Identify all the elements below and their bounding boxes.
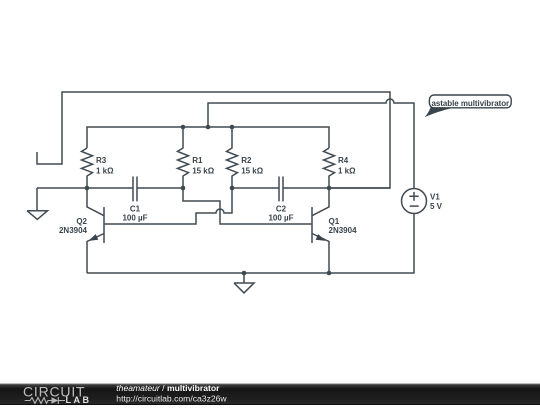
capacitor C2 <box>279 177 283 202</box>
junction dot R1 bottom <box>181 186 186 191</box>
junction dot Q1 emitter node <box>327 271 332 276</box>
svg-text:Q1: Q1 <box>329 217 340 226</box>
transistor Q2 base bar <box>103 207 105 243</box>
resistor R4 <box>324 148 335 188</box>
svg-text:C1: C1 <box>130 205 141 214</box>
transistor Q1 emitter <box>312 234 329 274</box>
wire left rail <box>37 187 133 189</box>
svg-text:Q2: Q2 <box>76 217 87 226</box>
emitter arrow Q2 <box>88 234 98 241</box>
svg-text:theamateur / multivibrator: theamateur / multivibrator <box>116 383 220 393</box>
svg-text:R1: R1 <box>192 156 203 165</box>
wire supply to V1 with hop <box>208 99 414 189</box>
voltage source V1 <box>402 189 427 214</box>
svg-text:100 µF: 100 µF <box>268 213 293 222</box>
transistor Q2 emitter <box>87 234 104 274</box>
emitter arrow Q1 <box>316 234 326 241</box>
junction dot R2 bottom <box>230 186 235 191</box>
svg-text:R4: R4 <box>338 156 349 165</box>
svg-text:100 µF: 100 µF <box>122 213 147 222</box>
wire C1 to R1 <box>137 187 183 189</box>
svg-text:LAB: LAB <box>66 395 92 405</box>
ground left <box>27 188 48 219</box>
annotation callout box <box>429 95 511 108</box>
svg-text:15 kΩ: 15 kΩ <box>192 166 215 175</box>
transistor Q2 collector <box>87 188 104 216</box>
ground bottom <box>234 273 254 293</box>
wire bottom rail <box>87 214 414 274</box>
resistor R2 <box>227 127 238 188</box>
wire top bus <box>87 127 329 148</box>
svg-text:2N3904: 2N3904 <box>59 226 88 235</box>
wire C2 to node B <box>283 187 390 189</box>
transistor Q1 collector <box>312 188 329 216</box>
svg-text:V1: V1 <box>430 193 440 202</box>
junction dot ground node <box>242 271 247 276</box>
wire R2 to C2 <box>232 187 279 189</box>
wire cross-couple A (R1 to Q1 base) <box>183 188 312 224</box>
junction dot Q1 collector node <box>327 186 332 191</box>
transistor Q1 base bar <box>311 207 313 243</box>
svg-text:R2: R2 <box>241 156 252 165</box>
svg-text:1 kΩ: 1 kΩ <box>338 166 356 175</box>
svg-text:C2: C2 <box>276 205 287 214</box>
wire cross-couple B (R2 to Q2 base) with hop <box>104 188 232 224</box>
junction dot R1 top <box>181 125 186 130</box>
svg-text:R3: R3 <box>96 156 107 165</box>
junction dot Q2 collector node <box>85 186 90 191</box>
svg-text:http://circuitlab.com/ca3z26w: http://circuitlab.com/ca3z26w <box>116 394 227 404</box>
annotation callout tail <box>425 107 456 117</box>
resistor R1 <box>178 127 189 188</box>
svg-text:5 V: 5 V <box>430 202 443 211</box>
footer logo squiggle <box>25 397 65 404</box>
svg-text:15 kΩ: 15 kΩ <box>241 166 264 175</box>
footer logo diode <box>52 397 59 404</box>
resistor R3 <box>82 148 93 188</box>
svg-text:1 kΩ: 1 kΩ <box>96 166 114 175</box>
junction dot supply stub <box>206 125 211 130</box>
junction dot R2 top <box>230 125 235 130</box>
svg-text:2N3904: 2N3904 <box>329 226 358 235</box>
svg-text:astable multivibrator: astable multivibrator <box>431 99 509 108</box>
wire top-left hook and node B feed <box>37 92 390 188</box>
capacitor C1 <box>133 177 137 202</box>
